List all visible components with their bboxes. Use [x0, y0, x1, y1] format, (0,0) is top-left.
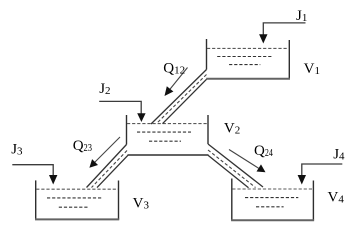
pipe Q12 walls — [151, 70, 207, 125]
inflow J3 elbow line — [12, 165, 53, 176]
label Q12 — [163, 61, 185, 77]
tank V4 inner level dashes — [245, 198, 298, 207]
tank V2 — [127, 115, 209, 155]
label V3 — [133, 195, 150, 211]
tank V4 water surface dashed line — [232, 188, 313, 190]
tank V1 — [206, 39, 290, 79]
tank V4 — [231, 179, 314, 221]
label J1 — [296, 8, 307, 24]
flow arrow Q23 head — [89, 159, 98, 168]
tank V3 water surface dashed line — [36, 188, 118, 190]
flow arrow Q12 — [169, 68, 188, 92]
label J3 — [11, 141, 23, 157]
tank V1 inner level dashes — [217, 57, 272, 65]
pipe Q24 centre dashed flow line — [208, 150, 256, 188]
label V2 — [224, 121, 240, 137]
flow arrow Q12 head — [165, 86, 174, 96]
pipe Q23 walls — [87, 145, 129, 188]
inflow J1 arrowhead — [259, 34, 267, 43]
inflow J4 arrowhead — [298, 175, 306, 185]
inflow J2 elbow line — [99, 101, 141, 113]
pipe Q24 walls — [208, 144, 263, 188]
tank V1 water surface dashed line — [207, 47, 289, 49]
label J4 — [333, 147, 345, 163]
tank V2 inner level dashes — [137, 132, 191, 141]
inflow J4 elbow line — [302, 164, 343, 176]
label V1 — [304, 61, 320, 77]
pipe Q12 centre dashed flow line — [157, 75, 207, 124]
pipe Q23 centre dashed flow line — [92, 151, 128, 188]
flow arrow Q24 head — [257, 164, 266, 172]
label Q23 — [73, 138, 93, 154]
flow arrow Q23 — [94, 137, 121, 164]
tank V2 water surface dashed line — [127, 123, 208, 125]
flow arrow Q24 — [229, 150, 260, 169]
inflow J1 elbow line — [263, 23, 305, 36]
tank V3 — [35, 180, 119, 219]
label J2 — [99, 81, 110, 97]
label Q24 — [254, 143, 273, 159]
inflow J2 arrowhead — [137, 113, 145, 122]
label V4 — [328, 190, 345, 206]
tank V3 inner level dashes — [47, 198, 103, 207]
inflow J3 arrowhead — [49, 175, 57, 185]
